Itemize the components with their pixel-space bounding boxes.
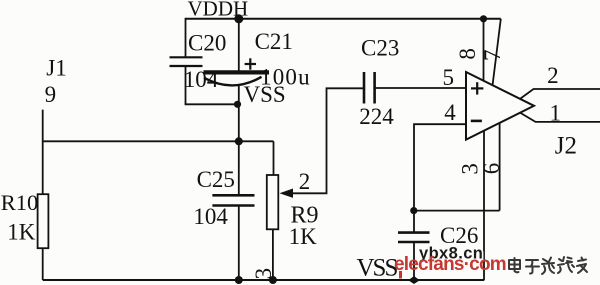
- svg-text:VDDH: VDDH: [188, 0, 249, 21]
- wire R10 bottom lead: [42, 248, 44, 280]
- label J1: [46, 56, 66, 81]
- wire C20 top lead: [185, 18, 187, 58]
- label J2: [555, 133, 577, 160]
- svg-text:1: 1: [550, 100, 562, 125]
- capacitor C25: [212, 195, 254, 205]
- svg-text:VSS: VSS: [357, 254, 398, 281]
- wire J1 pin 9 vertical: [42, 110, 44, 195]
- watermark chinese brand glyphs: [509, 257, 587, 274]
- svg-text:5: 5: [443, 65, 455, 90]
- svg-text:C23: C23: [361, 35, 399, 60]
- wire C25 bottom lead: [238, 206, 240, 281]
- label 224: [359, 104, 394, 129]
- svg-text:7: 7: [480, 50, 505, 62]
- label pin 8 (rotated): [455, 48, 480, 60]
- wire C20 bottom lead: [185, 66, 187, 104]
- watermark elecfans.com: [394, 254, 506, 275]
- label R9: [291, 203, 319, 229]
- node VDDH junction: [234, 14, 243, 23]
- svg-text:J1: J1: [46, 56, 66, 81]
- label C23: [361, 35, 399, 60]
- node VSS diamond: [408, 276, 419, 284]
- watermark red tick: [399, 271, 402, 279]
- capacitor C26: [398, 233, 430, 242]
- svg-text:1K: 1K: [7, 219, 36, 244]
- label VSS lower: [357, 254, 398, 281]
- label plus of C21: [245, 58, 256, 69]
- watermark ybx8.cn: [419, 245, 483, 263]
- svg-text:R10: R10: [1, 190, 39, 215]
- node C25 bottom junction: [235, 276, 243, 284]
- capacitor C20: [170, 57, 203, 66]
- wire bottom VSS rail: [43, 279, 485, 281]
- label output 2: [547, 63, 559, 88]
- label output 1: [550, 100, 562, 125]
- wire top VDDH rail: [186, 18, 501, 20]
- label wiper pin 2: [299, 169, 311, 194]
- svg-text:4: 4: [444, 100, 456, 125]
- wire output 2: [520, 89, 600, 99]
- svg-text:8: 8: [455, 48, 480, 60]
- label pin 3 (rotated): [457, 163, 482, 175]
- node C20/C21 bottom junction: [234, 101, 241, 108]
- node R9 bottom junction: [269, 276, 277, 284]
- label pin 6 (rotated): [479, 163, 504, 175]
- wire pin 3: [483, 131, 485, 280]
- capacitor C23: [364, 72, 375, 104]
- wire pins 3,6 to C26 horizontal: [414, 210, 500, 212]
- wire output 1: [520, 113, 600, 122]
- label pin 4: [444, 100, 456, 125]
- node middle rail junction: [235, 137, 243, 145]
- capacitor C21 (electrolytic): [204, 72, 270, 85]
- wire pin 4 input: [414, 124, 466, 232]
- label C25: [197, 167, 235, 192]
- wire R9 top lead: [273, 141, 275, 175]
- node top-right junction: [480, 15, 487, 22]
- wire pin 8 power: [483, 19, 485, 81]
- wire C26 bottom lead: [413, 242, 415, 280]
- label plus input: [471, 82, 483, 94]
- wire R9 wiper arrow: [280, 88, 365, 198]
- resistor R10: [38, 194, 49, 248]
- label 104 of C25: [193, 204, 228, 229]
- wire pin 7 power: [493, 19, 501, 85]
- label pin 3 of R9 (rotated): [251, 268, 276, 280]
- svg-text:9: 9: [45, 82, 57, 107]
- svg-text:J2: J2: [555, 133, 577, 160]
- wire pin 6: [499, 123, 501, 211]
- label 1K of R10: [7, 219, 36, 244]
- label minus input: [471, 120, 482, 123]
- label VSS upper: [244, 82, 286, 107]
- wire C21 bottom lead: [238, 86, 240, 196]
- label 100u: [260, 65, 311, 90]
- wire middle rail: [43, 140, 274, 142]
- svg-text:104: 104: [193, 204, 228, 229]
- wire C21 top lead: [238, 19, 240, 71]
- label C20: [188, 30, 226, 55]
- label C26: [440, 223, 478, 248]
- svg-text:VSS: VSS: [244, 82, 286, 107]
- svg-text:2: 2: [547, 63, 559, 88]
- op-amp U1 triangle: [466, 72, 534, 140]
- label 104 of C20: [184, 67, 219, 92]
- node pin4/C26 junction: [410, 207, 417, 214]
- wire C20 to C21 bottom connector: [185, 103, 238, 105]
- svg-text:C20: C20: [188, 30, 226, 55]
- svg-text:1K: 1K: [289, 224, 318, 249]
- wire R9 bottom lead: [272, 229, 274, 280]
- label pin 9 of J1: [45, 82, 57, 107]
- svg-text:2: 2: [299, 169, 311, 194]
- label VDDH: [188, 0, 249, 21]
- label C21: [255, 29, 293, 54]
- svg-text:elecfans·com: elecfans·com: [394, 254, 506, 275]
- label pin 7 (rotated): [480, 50, 505, 62]
- wire pin 5 input: [375, 87, 466, 89]
- label R10: [1, 190, 39, 215]
- svg-text:C21: C21: [255, 29, 293, 54]
- label 1K of R9: [289, 224, 318, 249]
- svg-text:224: 224: [359, 104, 394, 129]
- svg-text:3: 3: [251, 268, 276, 280]
- label pin 5: [443, 65, 455, 90]
- svg-text:C25: C25: [197, 167, 235, 192]
- potentiometer R9: [267, 175, 279, 229]
- svg-text:6: 6: [479, 163, 504, 175]
